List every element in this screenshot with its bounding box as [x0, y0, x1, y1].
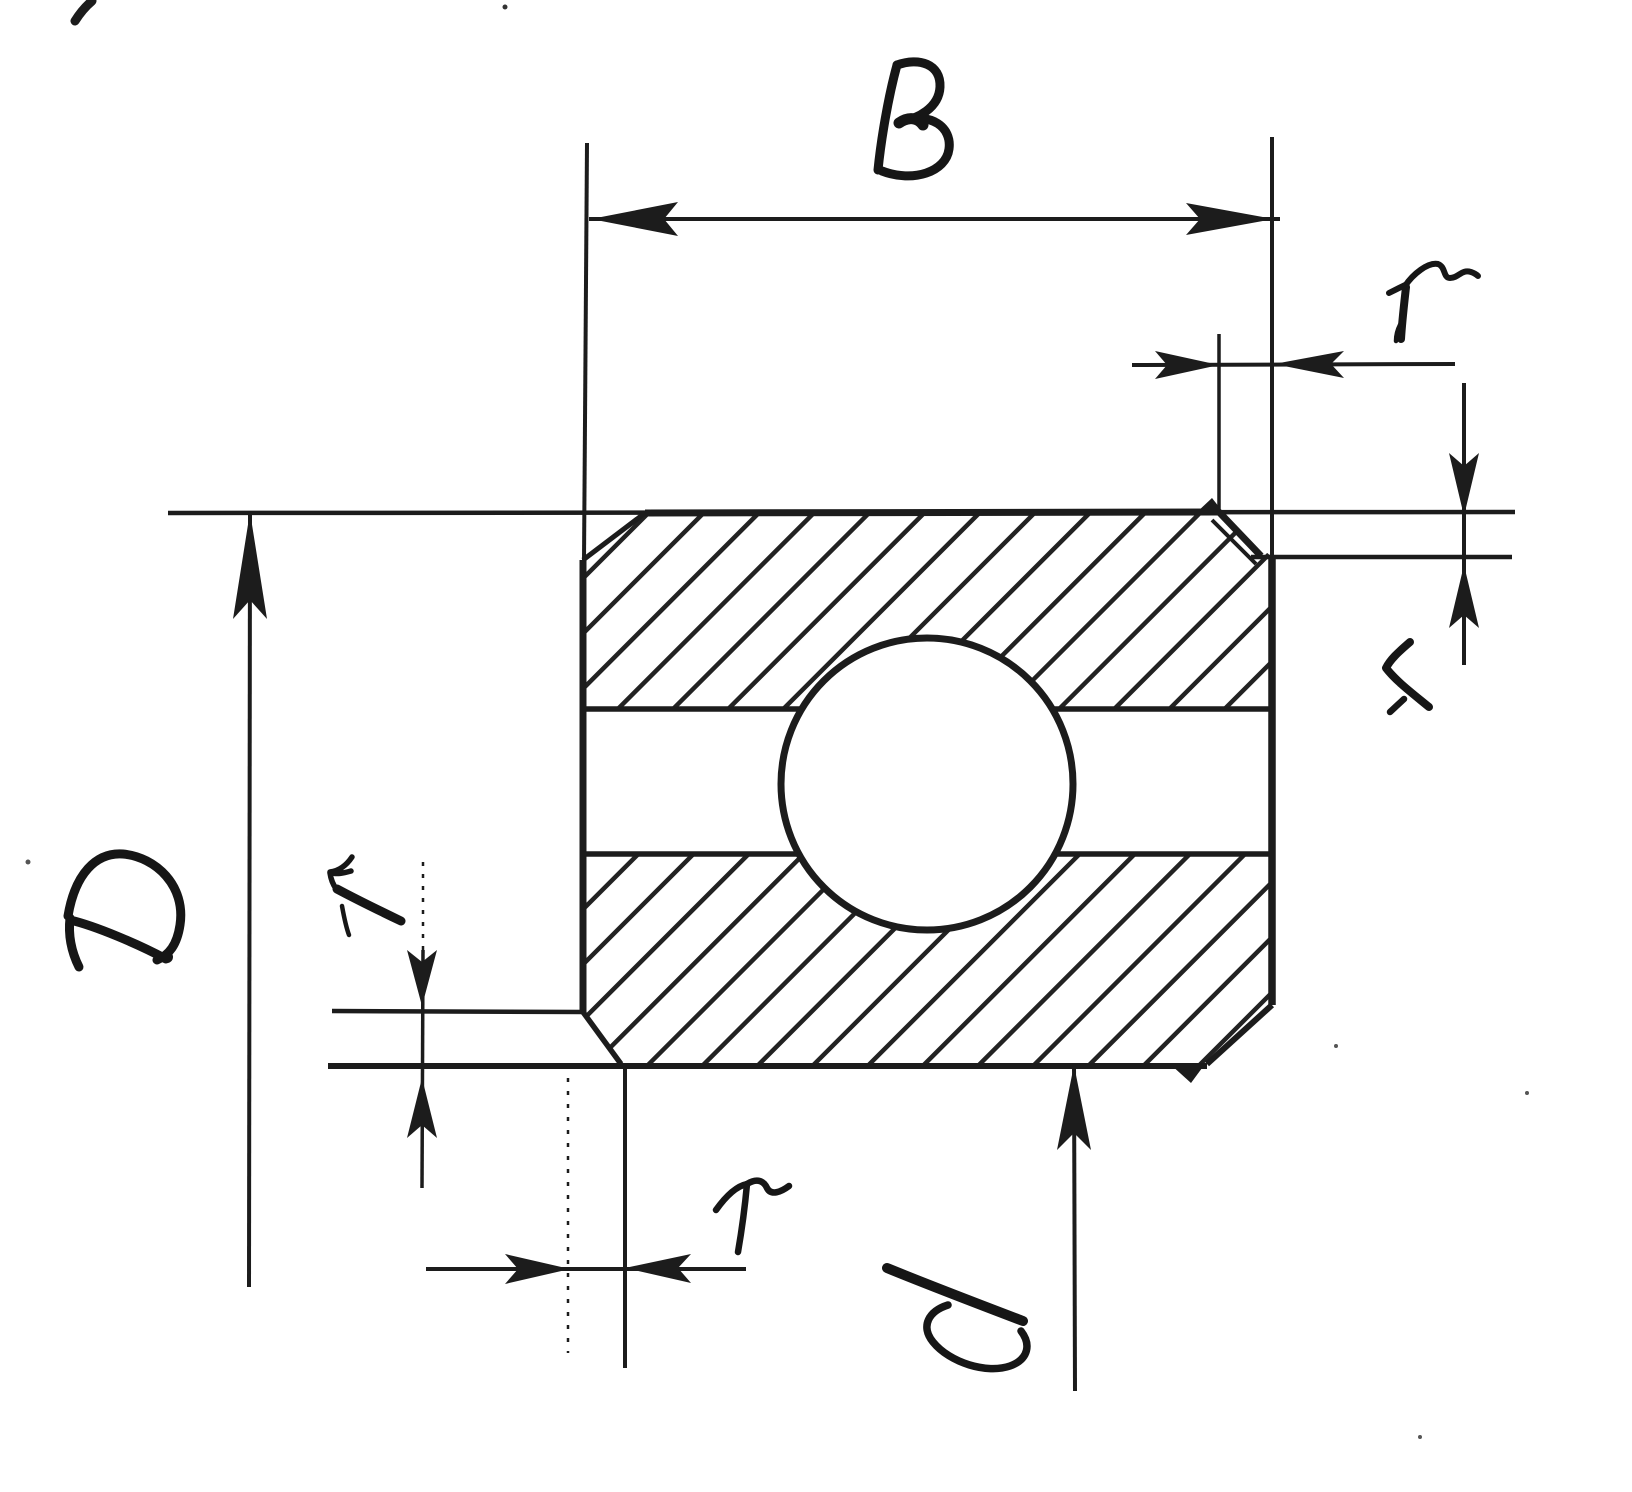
left extension line	[584, 143, 587, 560]
dimension r line left (vertical)	[422, 862, 425, 950]
specks	[503, 5, 508, 10]
arrow r left-point	[1274, 351, 1344, 378]
label D (rotated)	[68, 854, 181, 967]
outer ring upper section (hatched)	[583, 513, 1272, 709]
bottom chamfer level line left	[332, 1011, 583, 1012]
ball	[781, 638, 1073, 930]
arrow r left-point bottom	[625, 1254, 691, 1283]
top edge line (extended)	[168, 512, 1515, 513]
chamfer top-right	[1219, 512, 1261, 556]
arrow r up-point left	[407, 1078, 437, 1138]
top chamfer level line right	[1251, 555, 1512, 560]
small arrowhead on top edge at chamfer	[1196, 498, 1223, 513]
label r left	[330, 857, 401, 935]
arrow r up-point	[1449, 565, 1479, 628]
dimension B line	[589, 217, 1280, 221]
chamfer top-left	[583, 513, 645, 560]
raceway line upper	[583, 706, 1272, 712]
dimension d line	[1074, 1066, 1075, 1391]
bottom r extension lines	[567, 1078, 570, 1353]
dimension r line right (vertical)	[1462, 383, 1466, 665]
arrow d up	[1057, 1065, 1091, 1150]
label r right	[1386, 642, 1429, 712]
arrow B right	[1186, 203, 1274, 235]
stray mark top-left	[75, 1, 92, 21]
label d (rotated)	[887, 1268, 1027, 1369]
blob at bottom edge chamfer junction	[1170, 1064, 1205, 1083]
label r top-right	[1389, 264, 1478, 341]
raceway line lower	[583, 851, 1272, 857]
arrow B left	[591, 202, 678, 236]
dimension D line	[249, 514, 250, 1287]
chamfer bottom-right	[1207, 1005, 1272, 1064]
arrow r down-point	[1449, 453, 1479, 516]
arrow r right-point bottom	[505, 1254, 570, 1284]
arrow r down-point left	[407, 950, 437, 1006]
right extension line	[1270, 137, 1274, 556]
bottom edge line (extended)	[328, 1063, 1207, 1069]
dimension r line top-right	[1132, 364, 1455, 365]
chamfer bottom-left	[583, 1012, 621, 1064]
right edge	[1268, 556, 1276, 1005]
label r bottom	[716, 1181, 789, 1252]
inner ring lower section (hatched)	[583, 854, 1272, 1064]
label B	[878, 62, 949, 176]
dimension r line bottom	[426, 1267, 746, 1271]
arrow D up	[233, 512, 267, 619]
left edge	[580, 560, 587, 1012]
arrow r right-point	[1155, 351, 1219, 379]
r extension line top-right	[1217, 334, 1221, 512]
